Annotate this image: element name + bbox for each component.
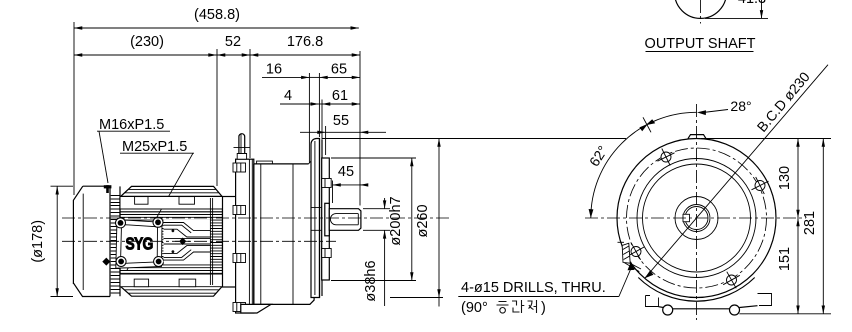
svg-text:(90°: (90° — [461, 300, 488, 316]
flange view vertical centerline — [696, 104, 698, 320]
side lug with hatch — [618, 242, 642, 271]
dim 16 — [262, 62, 319, 164]
bolt hole D — [723, 272, 740, 289]
B.C.D ø230 leader line — [645, 65, 828, 279]
svg-text:SYG: SYG — [125, 235, 153, 254]
svg-text:M16xP1.5: M16xP1.5 — [99, 117, 164, 133]
shaft section circle — [675, 0, 727, 24]
svg-text:52: 52 — [225, 34, 241, 50]
fan grille — [111, 186, 120, 296]
flange disc — [311, 139, 320, 298]
shaft shoulder — [325, 203, 330, 236]
bolt hole A — [658, 149, 675, 166]
bolt hole C — [628, 243, 645, 260]
arc end arrow left — [589, 209, 594, 218]
svg-text:45: 45 — [338, 164, 354, 180]
arc double arrow at tick (62 side) — [639, 124, 648, 131]
label 4-ø15 DRILLS THRU — [458, 262, 634, 297]
flange side bolt upper — [322, 179, 332, 188]
output shaft — [329, 209, 361, 231]
dim 176.8 — [250, 34, 360, 206]
adapter bolt lower-mid — [233, 254, 246, 263]
nameplate corner bolts — [116, 217, 164, 266]
svg-text:ø38h6: ø38h6 — [363, 260, 379, 301]
svg-text:130: 130 — [777, 166, 793, 190]
adapter flange plate — [236, 159, 254, 313]
hub circle — [675, 197, 718, 240]
svg-text:OUTPUT SHAFT: OUTPUT SHAFT — [645, 36, 756, 52]
chevron diamond — [179, 238, 186, 246]
output axis centerline — [62, 217, 452, 219]
dim 4 — [280, 88, 322, 140]
svg-text:ø260: ø260 — [415, 204, 431, 237]
spigot ø200 — [322, 158, 330, 280]
OUTPUT SHAFT title — [645, 36, 756, 52]
motor end bell — [223, 197, 236, 288]
fan cover — [73, 186, 110, 296]
svg-text:55: 55 — [333, 113, 349, 129]
spigot circle ø200 — [637, 159, 756, 278]
dim 45 — [333, 164, 369, 203]
svg-text:4-ø15 DRILLS, THRU.: 4-ø15 DRILLS, THRU. — [461, 280, 606, 296]
keyway dim 41.3 — [705, 0, 768, 18]
dim ø200h7 — [331, 158, 416, 281]
angle arc 62/28 — [589, 110, 706, 218]
svg-text:(ø178): (ø178) — [30, 220, 46, 263]
adapter bolt top — [233, 163, 246, 172]
dim 55 — [300, 113, 386, 155]
svg-text:ø200h7: ø200h7 — [388, 196, 404, 245]
BCD circle ø230 — [627, 148, 767, 288]
dim ø260 — [322, 139, 626, 307]
dim 65 — [319, 62, 360, 138]
svg-text:176.8: 176.8 — [287, 34, 323, 50]
tick at hole A radial — [643, 117, 651, 132]
motor cooling fins — [120, 201, 223, 282]
adapter bolt bottom — [233, 303, 246, 312]
svg-text:61: 61 — [332, 88, 348, 104]
svg-text:28°: 28° — [730, 98, 751, 114]
top key bump — [688, 135, 706, 139]
bottom foot pads — [120, 274, 223, 287]
flange shim — [320, 139, 323, 298]
svg-text:): ) — [541, 300, 546, 316]
drain diamond marker — [102, 258, 110, 266]
label M16xP1.5 leader — [97, 117, 170, 183]
dim (230) — [74, 34, 217, 186]
dim 52 — [217, 34, 250, 158]
svg-text:65: 65 — [331, 62, 347, 78]
gearbox foot — [241, 304, 271, 313]
flange side bolt lower — [322, 249, 332, 258]
28 deg label — [703, 98, 752, 114]
dim ø38h6 — [363, 198, 390, 306]
pilot circle — [643, 164, 751, 272]
bolt hole B — [752, 177, 769, 194]
cable channel chevron — [164, 198, 213, 285]
base feet behind flange — [638, 278, 771, 316]
svg-text:M25xP1.5: M25xP1.5 — [122, 139, 187, 155]
arc end arrow top — [697, 110, 706, 115]
arc double arrow at tick (28 side) — [646, 119, 656, 125]
gearbox housing — [254, 161, 314, 304]
adapter bolt upper-mid — [233, 206, 246, 215]
terminal box nameplate — [116, 220, 162, 269]
motor frame outline — [120, 186, 223, 296]
shaft circle ø38 — [683, 205, 710, 232]
svg-text:151: 151 — [777, 247, 793, 271]
svg-text:41.3: 41.3 — [738, 0, 766, 7]
svg-text:(458.8): (458.8) — [194, 7, 240, 23]
svg-text:4: 4 — [284, 88, 292, 104]
dim (ø178) — [30, 186, 73, 296]
dim 151 — [777, 218, 798, 314]
dim (458.8) — [74, 7, 359, 195]
dim 130 — [701, 139, 831, 219]
dim 281 — [739, 139, 831, 314]
eye bolt — [234, 134, 251, 159]
motor axis centerline — [62, 240, 336, 242]
label M25xP1.5 leader — [120, 139, 194, 270]
svg-text:16: 16 — [266, 62, 282, 78]
thermo plug T mark — [104, 185, 112, 193]
label (90° equal spacing) korean — [461, 300, 546, 316]
dim 61 — [322, 88, 360, 104]
svg-text:(230): (230) — [130, 34, 164, 50]
flange outer circle ø260 — [617, 139, 776, 298]
top foot pads — [120, 197, 223, 212]
svg-text:281: 281 — [802, 211, 818, 235]
shaft keyway — [683, 214, 690, 221]
flange view horizontal centerline — [585, 217, 806, 219]
